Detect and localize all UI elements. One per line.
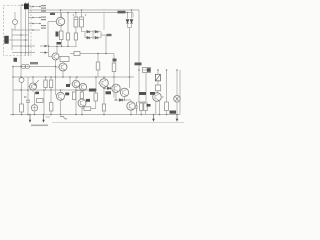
transistor T11 xyxy=(153,93,162,102)
transistor T10 xyxy=(127,102,135,110)
wire R10 top xyxy=(50,77,52,90)
ground symbol G1 xyxy=(153,115,155,120)
wire x96 upper xyxy=(95,77,97,90)
wire R12 links xyxy=(82,90,96,109)
wire selector stub y6.5 xyxy=(29,6,41,8)
wire T12 leads xyxy=(176,70,178,115)
label R5 xyxy=(113,59,117,62)
transistor T2 xyxy=(52,53,59,60)
label diode string xyxy=(107,34,112,36)
label BD139 xyxy=(106,91,112,94)
wire box inner vertical xyxy=(11,28,13,50)
label T4 xyxy=(66,84,70,87)
diode D5b xyxy=(119,99,122,102)
transistor T9 xyxy=(78,99,86,107)
wire C2b leads xyxy=(82,10,86,32)
wire C2a leads xyxy=(75,13,77,34)
capsule C0 xyxy=(13,20,18,25)
capacitor C6 box xyxy=(155,85,160,91)
wire R17 bottom xyxy=(103,111,105,115)
wire capsule stubs xyxy=(14,12,16,30)
wire T2 base xyxy=(49,46,53,57)
wire T2 collector xyxy=(56,46,58,53)
wire T8 leads xyxy=(60,90,62,115)
electrolytic cap C3 circle xyxy=(31,105,37,111)
wire switch vertical x25.5 xyxy=(25,2,27,56)
resistor R10 xyxy=(49,80,52,88)
wire x21 lower column xyxy=(20,76,23,104)
wire rail B (second top rail) xyxy=(29,13,134,18)
wire left vertical bus xyxy=(12,67,14,115)
wire T3 leads xyxy=(56,62,64,78)
resistor R14 xyxy=(140,103,143,111)
wire R15 leads xyxy=(137,102,146,115)
wire T1 emitter xyxy=(60,26,62,31)
wire lower-left horizontal net xyxy=(13,89,90,91)
wire R7 bottom xyxy=(21,112,23,115)
resistor R7 xyxy=(20,104,24,112)
capacitor C4 xyxy=(26,100,30,102)
wire rail A (positive supply top) xyxy=(29,10,140,70)
wire T11 leads xyxy=(156,97,164,115)
wire selector stub y23.5 xyxy=(29,23,41,25)
label cluster right-bottom xyxy=(147,104,151,107)
label under T7 xyxy=(35,92,39,95)
wire ground bus xyxy=(10,114,180,116)
transistor T7 xyxy=(30,83,37,90)
transistor T3 xyxy=(59,63,67,71)
diode string D1-D4 xyxy=(87,30,98,39)
wire x139 lower column xyxy=(138,70,140,102)
wire y66 net xyxy=(13,66,56,68)
resistor R15 xyxy=(144,103,147,111)
arrow input upper xyxy=(45,45,48,47)
label T9 xyxy=(86,99,90,102)
junction dots main xyxy=(12,9,178,115)
wire T5 leads xyxy=(98,77,112,104)
resistor R16 xyxy=(165,102,169,111)
wire y53.5 net xyxy=(82,54,114,64)
resistor R17 xyxy=(102,104,105,111)
capacitor C2b electrolytic xyxy=(80,17,84,27)
input source dashed box xyxy=(4,6,32,56)
label near T5 xyxy=(89,89,96,92)
transistor T6 xyxy=(112,84,120,92)
label BD140 left xyxy=(139,92,146,95)
zener Z1 xyxy=(155,74,160,81)
resistor R18 xyxy=(94,93,97,101)
dual cap symbol on y66 net xyxy=(21,64,25,68)
wire x104 drop from rail xyxy=(103,13,105,31)
transistor T6b xyxy=(120,88,128,96)
wire right edge drop xyxy=(179,70,181,115)
capacitor plus marks xyxy=(73,14,87,16)
label near T11 xyxy=(150,92,155,95)
wire T10 leads xyxy=(130,100,132,115)
label cx xyxy=(50,13,55,15)
label 2x diodes xyxy=(118,11,126,14)
resistor R11 xyxy=(44,80,47,88)
fuse F1 xyxy=(143,68,151,73)
label 0R22 xyxy=(170,111,177,114)
wire R11 stubs xyxy=(45,77,47,90)
wire y47 bias net xyxy=(49,45,78,47)
capacitor C2a electrolytic xyxy=(74,17,78,27)
label C4 plus xyxy=(24,97,26,98)
wire R3 bottom xyxy=(75,40,77,46)
wire T6 leads xyxy=(116,88,125,100)
wire R13 column xyxy=(97,54,99,78)
wire diode pair join xyxy=(128,23,132,88)
wire R16 bottom xyxy=(166,111,168,115)
wire R14 leads xyxy=(140,102,142,115)
wire x68 column xyxy=(67,13,69,34)
switch wiper dark blob xyxy=(24,4,29,10)
wire T7 leads xyxy=(28,77,35,105)
wire box stub y35 xyxy=(12,34,29,36)
wire box vertical x21 xyxy=(20,6,22,76)
transistor T4 xyxy=(72,80,79,87)
wire T9 leads xyxy=(81,91,83,115)
capacitor C5 xyxy=(135,102,138,112)
resistor R3 xyxy=(74,33,77,40)
resistor R12 horizontal xyxy=(84,107,91,111)
label bottom-left caption xyxy=(31,125,48,127)
wire R9 column xyxy=(50,90,52,115)
resistor R5 xyxy=(112,63,116,72)
pickup element P1 xyxy=(5,36,9,44)
lamp output circle T12 xyxy=(174,96,181,103)
wire box stub y40 xyxy=(12,39,29,41)
label under dashed box xyxy=(14,58,18,62)
transistor T5 xyxy=(100,79,109,88)
wire T2 emitter xyxy=(56,60,58,96)
output arrow A1 xyxy=(29,115,31,121)
wire R6 stub xyxy=(59,56,60,58)
trimmer symbol on x21 column xyxy=(19,78,24,83)
wire R8 link xyxy=(43,90,44,115)
wire Z1 leads xyxy=(157,70,159,85)
wire selector stub y30 xyxy=(12,29,40,31)
diode D5 xyxy=(107,87,110,90)
junction dots selector xyxy=(20,6,41,54)
resistor R4 xyxy=(74,52,80,56)
resistor R1 xyxy=(60,31,64,40)
label near T2 top xyxy=(57,42,62,45)
arrow input lower xyxy=(45,51,48,53)
wire x166.5 column xyxy=(166,70,168,102)
wire diode string frame xyxy=(85,30,106,53)
wire mid horizontal net xyxy=(13,76,134,78)
diode D6 xyxy=(126,20,129,24)
label cluster top-left xyxy=(21,5,47,29)
wire input line lower xyxy=(12,52,49,54)
ground symbol G2 xyxy=(176,115,178,120)
wire R4 stub xyxy=(70,53,82,55)
output arrow A2 xyxy=(43,115,45,121)
label R1 xyxy=(56,32,59,37)
wire arrow tick xyxy=(46,116,51,118)
wire R1 bottom xyxy=(61,40,63,47)
diode D7 xyxy=(130,20,133,24)
resistor R20 emitter xyxy=(80,92,83,99)
wire diode feed column x129.5 xyxy=(128,10,132,19)
label T8 xyxy=(65,93,69,96)
transistor T1 xyxy=(56,17,64,25)
wire C3 bottom xyxy=(34,111,36,115)
wire C6 bottom xyxy=(157,91,159,93)
resistor R13 xyxy=(96,62,100,70)
wire T1 collector xyxy=(61,10,62,17)
wire T1 base xyxy=(48,22,56,47)
wire C4 leads xyxy=(27,90,29,115)
wire y96.5 net xyxy=(76,91,82,99)
label F1 xyxy=(135,63,142,66)
wire R5 bottom xyxy=(113,72,115,99)
wire x146 column xyxy=(138,72,147,102)
resistor R2 xyxy=(66,33,69,40)
wire T4 leads xyxy=(70,77,83,115)
transistor T4b xyxy=(79,83,86,90)
wire switch vertical x28.5 xyxy=(28,2,30,56)
wire pickup stub xyxy=(9,39,13,41)
resistor R8 horizontal xyxy=(37,99,44,103)
label y66 component xyxy=(30,62,38,64)
label wiring squiggle xyxy=(60,116,67,119)
wire bottom frame line xyxy=(52,122,184,124)
wire y100 net xyxy=(114,99,131,101)
resistor R9 xyxy=(50,103,53,112)
wire input line upper xyxy=(12,45,49,47)
resistor R6 xyxy=(60,57,69,62)
resistor R19 emitter xyxy=(73,92,76,100)
wire R2 bottom xyxy=(67,40,69,46)
wire selector stub y17.5 xyxy=(29,17,41,19)
transistor T8 xyxy=(57,92,65,100)
